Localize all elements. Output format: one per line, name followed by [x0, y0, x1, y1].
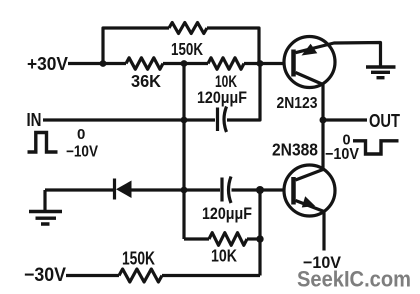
- input pulse waveform: [28, 133, 58, 153]
- node junction base Q1: [257, 60, 264, 67]
- svg-text:−30V: −30V: [24, 265, 66, 286]
- svg-text:120μμF: 120μμF: [197, 88, 247, 107]
- wire collector bus vertical: [321, 85, 324, 170]
- wire bottom 10K row: [184, 237, 209, 240]
- node junction diode row: [181, 187, 188, 194]
- wire 10K bottom to right vertical: [247, 237, 260, 240]
- node junction 36K/10K: [181, 60, 188, 67]
- wire top loop left vertical and top run to 150K: [103, 28, 169, 64]
- wire +30V lead to 36K: [68, 62, 126, 65]
- resistor R 150K bottom: [119, 269, 162, 282]
- transistor Q1 emitter wire to top ground: [296, 43, 381, 67]
- resistor R 36K: [126, 58, 163, 69]
- capacitor C 120uuF top: [218, 107, 227, 133]
- svg-text:150K: 150K: [122, 248, 155, 269]
- svg-text:OUT: OUT: [369, 111, 400, 131]
- svg-text:36K: 36K: [131, 71, 161, 91]
- transistor Q2 collector wire: [296, 170, 324, 181]
- transistor Q1 emitter arrow: [302, 44, 318, 56]
- wire OUT lead: [323, 118, 367, 121]
- node junction OUT: [320, 117, 327, 124]
- transistor Q2 emitter arrow: [302, 196, 315, 207]
- wire IN line to coupling capacitor: [43, 118, 215, 121]
- transistor Q1 2N123 circle: [284, 37, 335, 88]
- wire center vertical node A: [182, 64, 185, 240]
- svg-text:2N123: 2N123: [277, 95, 318, 112]
- ground symbol left bars: [29, 212, 62, 225]
- svg-text:−10V: −10V: [325, 146, 360, 163]
- resistor R 150K top: [169, 23, 207, 34]
- wire diode to bottom capacitor: [131, 188, 220, 191]
- diode CR1 triangle: [116, 181, 132, 199]
- wire capacitor to base node vertical: [227, 64, 260, 121]
- svg-text:150K: 150K: [171, 39, 203, 59]
- ground symbol right bars: [366, 67, 396, 78]
- transistor Q2 emitter wire to -10V: [296, 201, 325, 251]
- svg-text:−10V: −10V: [66, 144, 99, 161]
- wire 150K bottom to right vertical: [162, 274, 260, 277]
- node junction +30V: [100, 60, 107, 67]
- node junction IN: [181, 117, 188, 124]
- wire ground to diode: [45, 188, 114, 191]
- svg-text:2N388: 2N388: [272, 140, 318, 160]
- wire -30V lead to 150K: [66, 274, 119, 277]
- wire 10K to base of 2N123: [244, 62, 285, 65]
- transistor Q1 collector wire: [296, 73, 324, 85]
- diode CR1 bar: [113, 179, 116, 200]
- output pulse waveform: [353, 141, 399, 154]
- svg-text:10K: 10K: [211, 246, 237, 266]
- svg-text:120μμF: 120μμF: [202, 204, 252, 223]
- svg-text:+30V: +30V: [27, 54, 68, 74]
- node junction base Q2: [256, 186, 264, 194]
- transistor Q2 base bar: [291, 177, 296, 205]
- resistor R 10K top: [208, 58, 244, 69]
- ground symbol left stem: [43, 190, 46, 210]
- transistor Q1 base bar: [291, 50, 296, 77]
- node junction 10K/150K bottom: [256, 235, 263, 242]
- transistor Q2 2N388 circle: [284, 165, 335, 216]
- resistor R 10K bottom: [209, 233, 247, 246]
- svg-text:IN: IN: [27, 109, 42, 130]
- wire 36K to 10K: [163, 62, 208, 65]
- wire 150K to right vertical down to base node: [207, 28, 259, 64]
- svg-text:SeekIC.com: SeekIC.com: [297, 267, 411, 292]
- wire capacitor to base of 2N388: [232, 188, 286, 191]
- wire right vertical base node 2N388 down to -30V row: [258, 190, 261, 276]
- capacitor C 120uuF bottom: [222, 177, 231, 204]
- svg-text:0: 0: [77, 126, 85, 143]
